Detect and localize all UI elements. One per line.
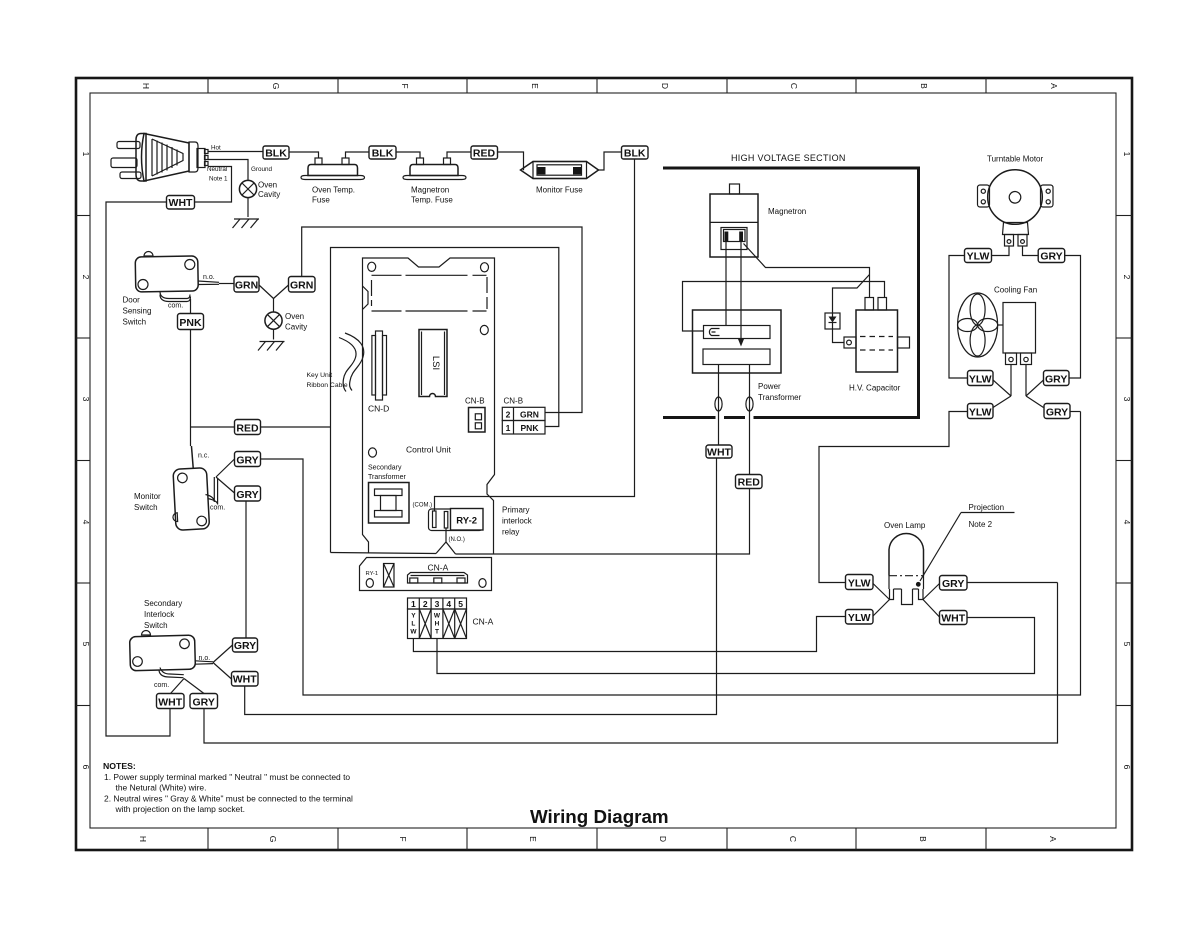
wire tag BLK 1 xyxy=(263,146,289,159)
svg-text:D: D xyxy=(658,836,668,842)
wire tag GRY secondary com xyxy=(190,694,218,709)
wire YLW fan bottom to oven lamp yellow xyxy=(819,412,968,583)
relay RY-2 xyxy=(429,509,484,531)
diode xyxy=(825,313,840,329)
oven temp fuse xyxy=(301,158,365,180)
wire fan pin1 leads xyxy=(993,365,1011,408)
svg-text:NOTES:: NOTES: xyxy=(103,761,136,771)
ground symbol 1 xyxy=(233,219,260,228)
wire tag YLW lamp 2 xyxy=(846,610,874,625)
svg-text:n.o.: n.o. xyxy=(199,655,211,662)
wire N.O. to transformer red xyxy=(456,489,750,555)
svg-text:Interlock: Interlock xyxy=(144,610,175,619)
monitor switch com terminal xyxy=(206,477,218,505)
svg-text:Wiring Diagram: Wiring Diagram xyxy=(530,806,669,827)
wire tag PNK xyxy=(178,314,204,330)
CN-A pin1 YLW vertical xyxy=(410,613,417,636)
wire tag WHT secondary com xyxy=(157,694,185,709)
oven lamp bulb xyxy=(889,534,924,605)
svg-text:1: 1 xyxy=(411,599,416,609)
svg-text:B: B xyxy=(919,83,929,89)
svg-text:W: W xyxy=(434,613,441,620)
border grid numbers right xyxy=(1122,152,1132,770)
relay board strip RY-1 / CN-A xyxy=(360,558,492,591)
ground symbol 2 xyxy=(258,342,285,351)
wire RED to n.c. node xyxy=(191,426,235,428)
wire com Y to WHT and GRY tags xyxy=(171,679,185,694)
wire tag YLW lamp 1 xyxy=(846,575,874,590)
callout Projection Note 2 xyxy=(920,503,1015,581)
secondary interlock com terminal xyxy=(159,668,184,678)
wire oven cavity 2 to ground xyxy=(273,329,275,339)
svg-text:n.o.: n.o. xyxy=(203,274,215,281)
svg-text:Oven Temp.: Oven Temp. xyxy=(312,186,355,195)
border grid numbers left xyxy=(81,152,91,770)
wire oven temp fuse to BLK 2 xyxy=(346,152,370,158)
svg-text:Sensing: Sensing xyxy=(123,307,152,316)
svg-text:YLW: YLW xyxy=(969,374,992,386)
svg-text:Ground: Ground xyxy=(251,166,273,173)
H.V. capacitor xyxy=(844,298,910,373)
high voltage section box xyxy=(663,168,919,418)
wire tag RED transformer xyxy=(736,475,763,489)
svg-text:A: A xyxy=(1049,83,1059,89)
wire com to PNK xyxy=(190,299,192,314)
svg-text:Fuse: Fuse xyxy=(312,196,330,205)
svg-text:5: 5 xyxy=(1122,642,1132,647)
control unit PCB outline xyxy=(363,258,495,554)
connector CN-D xyxy=(372,331,387,400)
wire door switch n.o. to GRN xyxy=(219,283,234,285)
connector table CN-B xyxy=(502,407,545,434)
wire BLK to oven temp fuse xyxy=(289,152,319,158)
svg-text:CN-A: CN-A xyxy=(428,563,449,573)
svg-text:CN-B: CN-B xyxy=(504,397,524,406)
svg-text:WHT: WHT xyxy=(707,447,731,459)
wire GRY turntable to fan gray node xyxy=(1065,256,1081,379)
svg-text:G: G xyxy=(268,836,278,843)
wire tag GRN 2 xyxy=(289,277,316,293)
svg-text:H.V. Capacitor: H.V. Capacitor xyxy=(849,384,901,393)
turntable motor xyxy=(978,170,1054,246)
key unit ribbon cable xyxy=(339,333,364,392)
wire turntable pin2 to GRY xyxy=(1023,246,1039,256)
svg-text:Cavity: Cavity xyxy=(285,323,307,332)
svg-text:B: B xyxy=(918,836,928,842)
wire lamp right pin diagonals xyxy=(923,584,940,618)
svg-text:2. Neutral wires " Gray & Whi: 2. Neutral wires " Gray & White" must be… xyxy=(104,794,353,804)
PCB mounting hole xyxy=(369,448,377,457)
svg-text:PNK: PNK xyxy=(521,423,540,433)
svg-text:Note 2: Note 2 xyxy=(969,520,993,529)
svg-text:4: 4 xyxy=(81,520,91,525)
svg-text:RED: RED xyxy=(738,477,761,489)
svg-text:with projection on the lamp so: with projection on the lamp socket. xyxy=(115,804,245,814)
wire CN-A pin3 to oven lamp white xyxy=(437,618,1035,674)
svg-text:LSI: LSI xyxy=(430,356,441,370)
wire primary lead white xyxy=(718,365,720,446)
svg-text:WHT: WHT xyxy=(233,674,257,686)
wire GRY fan bottom junction xyxy=(1070,411,1081,413)
svg-text:L: L xyxy=(411,621,415,628)
CN-A unused pins X xyxy=(419,609,466,639)
svg-text:CN-D: CN-D xyxy=(368,404,389,414)
border grid letters top xyxy=(141,83,1059,90)
projection dot on lamp socket xyxy=(916,582,921,587)
svg-text:GRY: GRY xyxy=(236,489,258,501)
svg-text:BLK: BLK xyxy=(624,148,646,160)
svg-text:RY-2: RY-2 xyxy=(456,516,477,527)
svg-text:HIGH VOLTAGE SECTION: HIGH VOLTAGE SECTION xyxy=(731,153,846,163)
wire primary lead red xyxy=(749,365,751,475)
svg-text:GRY: GRY xyxy=(234,640,256,652)
wire tag WHT transformer xyxy=(706,445,732,458)
svg-text:Secondary: Secondary xyxy=(144,599,182,608)
svg-text:Ribbon Cable: Ribbon Cable xyxy=(307,382,348,389)
svg-text:Oven: Oven xyxy=(258,181,277,190)
svg-text:E: E xyxy=(528,836,538,842)
svg-text:GRY: GRY xyxy=(1046,407,1068,419)
svg-text:the Netural (White) wire.: the Netural (White) wire. xyxy=(116,783,207,793)
wire tag WHT lamp xyxy=(940,611,968,625)
svg-text:Switch: Switch xyxy=(134,503,158,512)
wire tag BLK 4 xyxy=(622,146,649,159)
svg-text:2: 2 xyxy=(423,599,428,609)
wire GRY lamp to gray rail xyxy=(967,582,1058,584)
wire RY-2 N.O. to bump junction xyxy=(445,528,447,542)
svg-text:1: 1 xyxy=(506,423,511,433)
secondary transformer xyxy=(369,483,410,524)
wire GRN 2 riser to control unit loop xyxy=(302,227,582,413)
wire WHT n.o. to transformer white xyxy=(245,458,717,715)
svg-text:Transformer: Transformer xyxy=(368,474,407,481)
CN-A pin3 WHT vertical xyxy=(434,613,441,636)
svg-text:D: D xyxy=(660,83,670,89)
wire PNK loop to CN-B xyxy=(331,248,559,553)
svg-text:1: 1 xyxy=(1122,152,1132,157)
wire RED to PNK loop xyxy=(261,426,331,428)
svg-text:com.: com. xyxy=(168,303,183,310)
svg-text:3: 3 xyxy=(1122,397,1132,402)
svg-text:C: C xyxy=(789,83,799,89)
svg-text:Temp. Fuse: Temp. Fuse xyxy=(411,196,453,205)
connector CN-B on board xyxy=(469,408,486,433)
strip mounting hole xyxy=(479,579,486,588)
svg-text:4: 4 xyxy=(1122,520,1132,525)
relay RY-1 symbol xyxy=(384,564,395,588)
svg-text:A: A xyxy=(1048,836,1058,842)
svg-text:WHT: WHT xyxy=(941,613,965,625)
oven cavity symbol 2 xyxy=(265,312,282,329)
connector CN-A on strip xyxy=(408,573,468,584)
svg-text:G: G xyxy=(271,83,281,90)
svg-text:BLK: BLK xyxy=(372,148,394,160)
svg-text:E: E xyxy=(530,83,540,89)
svg-text:RY-1: RY-1 xyxy=(366,571,379,577)
wire turntable pin1 to YLW xyxy=(992,246,1010,256)
secondary interlock switch xyxy=(130,631,213,671)
svg-text:CN-A: CN-A xyxy=(473,617,494,627)
svg-text:T: T xyxy=(435,629,439,636)
svg-text:H: H xyxy=(435,621,440,628)
svg-text:3: 3 xyxy=(435,599,440,609)
IC LSI xyxy=(419,330,447,397)
svg-text:Y: Y xyxy=(411,613,416,620)
svg-text:com.: com. xyxy=(210,505,225,512)
wire magnetron to capacitor pin xyxy=(744,244,870,298)
PCB mounting hole xyxy=(480,325,488,334)
wire tag YLW fan mid xyxy=(968,371,994,386)
connector table CN-A xyxy=(408,598,467,639)
svg-text:Turntable Motor: Turntable Motor xyxy=(987,155,1044,164)
svg-text:Cooling Fan: Cooling Fan xyxy=(994,286,1037,295)
wire tag BLK 2 xyxy=(369,146,396,159)
svg-text:1: 1 xyxy=(81,152,91,157)
svg-text:Magnetron: Magnetron xyxy=(411,186,449,195)
monitor switch n.c. post xyxy=(191,446,194,469)
wire neutral plug to WHT tag xyxy=(195,167,232,203)
wire tag GRY monitor 2 xyxy=(235,486,261,501)
wire tag RED xyxy=(471,146,498,159)
svg-text:GRY: GRY xyxy=(1040,251,1062,263)
svg-text:2: 2 xyxy=(506,410,511,420)
wire diode anode to capacitor node xyxy=(833,275,870,314)
svg-text:F: F xyxy=(398,836,408,841)
svg-text:Note 1: Note 1 xyxy=(209,176,228,183)
wire com Y to GRY tags xyxy=(216,459,235,477)
wire diode cathode to capacitor tab xyxy=(833,329,845,343)
grommet oval xyxy=(715,397,722,411)
svg-text:BLK: BLK xyxy=(265,148,287,160)
wire GRY1 rail to cooling fan gray xyxy=(261,412,1081,696)
svg-text:Monitor: Monitor xyxy=(134,492,161,501)
svg-text:com.: com. xyxy=(154,682,169,689)
svg-text:Hot: Hot xyxy=(211,145,221,152)
svg-text:F: F xyxy=(400,83,410,88)
svg-text:relay: relay xyxy=(502,528,519,537)
oven cavity symbol 1 xyxy=(239,180,256,197)
svg-text:YLW: YLW xyxy=(848,612,871,624)
svg-text:H: H xyxy=(138,836,148,842)
svg-text:Oven: Oven xyxy=(285,312,304,321)
wire tag WHT neutral xyxy=(167,196,195,210)
wire lamp left pin diagonals xyxy=(873,584,890,617)
wire hot plug to BLK xyxy=(208,151,263,153)
magnetron temp fuse xyxy=(403,158,466,180)
PCB mounting hole xyxy=(368,262,376,271)
wire tag GRY fan mid xyxy=(1044,371,1070,386)
border tick marks xyxy=(76,78,1132,850)
svg-text:YLW: YLW xyxy=(969,407,992,419)
svg-text:3: 3 xyxy=(81,397,91,402)
wire magnetron filament right arrow to transformer xyxy=(738,242,744,347)
door switch com terminal xyxy=(160,292,190,299)
svg-text:Control Unit: Control Unit xyxy=(406,445,452,455)
wire CN-A pin1 to oven lamp yellow xyxy=(413,617,845,652)
monitor fuse xyxy=(521,162,599,179)
svg-text:2: 2 xyxy=(1122,275,1132,280)
wire monitor fuse to BLK 4 xyxy=(599,152,622,170)
wire transformer HV winding to capacitor xyxy=(683,282,885,332)
pin numbers CN-A xyxy=(411,599,463,609)
svg-text:Monitor Fuse: Monitor Fuse xyxy=(536,186,583,195)
svg-text:GRY: GRY xyxy=(193,696,215,708)
wire tag GRY turntable xyxy=(1038,249,1065,263)
svg-text:6: 6 xyxy=(1122,765,1132,770)
wire BLK down to RY-2 COM xyxy=(435,159,635,511)
svg-text:Primary: Primary xyxy=(502,506,530,515)
border grid letters bottom xyxy=(138,836,1058,843)
svg-text:Projection: Projection xyxy=(969,503,1005,512)
wire n.o. Y to GRY and WHT tags xyxy=(213,645,233,663)
svg-text:4: 4 xyxy=(446,599,451,609)
svg-text:(N.O.): (N.O.) xyxy=(449,537,465,543)
wire GRY com rail to oven lamp gray xyxy=(204,583,1058,744)
svg-text:WHT: WHT xyxy=(158,696,182,708)
svg-text:interlock: interlock xyxy=(502,517,533,526)
wire tag RED monitor xyxy=(235,420,261,435)
wire tag YLW turntable xyxy=(965,249,992,263)
wire oven cavity to ground xyxy=(247,198,249,217)
wire fan pin2 leads xyxy=(1026,365,1044,408)
wire RED to monitor fuse xyxy=(498,152,524,170)
svg-text:Transformer: Transformer xyxy=(758,393,802,402)
wire tag GRY monitor 1 xyxy=(235,452,261,467)
svg-text:Key Unit: Key Unit xyxy=(307,372,333,379)
wire tag WHT secondary n.o. xyxy=(232,672,259,687)
notes text xyxy=(103,761,353,814)
PCB mounting hole xyxy=(481,263,489,272)
cooling fan xyxy=(958,293,1036,365)
svg-text:GRN: GRN xyxy=(520,410,539,420)
svg-text:5: 5 xyxy=(458,599,463,609)
wire BLK to magnetron temp fuse xyxy=(396,152,420,158)
svg-text:n.c.: n.c. xyxy=(198,453,209,460)
svg-text:CN-B: CN-B xyxy=(465,397,485,406)
svg-text:W: W xyxy=(410,629,417,636)
svg-text:1. Power supply terminal mark: 1. Power supply terminal marked " Neutra… xyxy=(104,772,350,782)
svg-text:Power: Power xyxy=(758,382,781,391)
svg-text:6: 6 xyxy=(81,765,91,770)
svg-text:GRY: GRY xyxy=(942,578,964,590)
wire neutral rail left xyxy=(106,202,170,736)
svg-text:Door: Door xyxy=(123,296,141,305)
wire bump junction xyxy=(436,542,456,554)
display window dashed xyxy=(372,275,488,311)
wire GRN junction Y xyxy=(259,285,289,312)
svg-text:5: 5 xyxy=(81,642,91,647)
svg-text:H: H xyxy=(141,83,151,89)
border inner frame xyxy=(90,93,1116,828)
wire PNK down to monitor n.c. node xyxy=(190,330,192,447)
svg-text:Switch: Switch xyxy=(144,621,168,630)
door sensing switch xyxy=(135,252,219,293)
svg-text:YLW: YLW xyxy=(848,578,871,590)
power transformer xyxy=(693,310,782,373)
svg-text:GRY: GRY xyxy=(1045,374,1067,386)
wire rail to bump junction xyxy=(331,553,437,554)
wire tag GRY fan bottom xyxy=(1044,404,1070,419)
wire tag GRN 1 xyxy=(234,277,259,293)
wire ground plug to oven cavity xyxy=(208,160,248,181)
wire WHT transformer down xyxy=(716,457,718,459)
wire YLW turntable to fan yellow node xyxy=(949,256,968,379)
svg-text:GRN: GRN xyxy=(235,280,258,292)
wire magnetron temp fuse to RED xyxy=(447,152,471,158)
wire tag GRY secondary n.o. xyxy=(233,638,258,652)
svg-text:2: 2 xyxy=(81,275,91,280)
svg-text:Cavity: Cavity xyxy=(258,190,280,199)
border outer frame xyxy=(76,78,1132,850)
svg-text:Secondary: Secondary xyxy=(368,465,402,472)
svg-text:Oven Lamp: Oven Lamp xyxy=(884,521,926,530)
power plug xyxy=(111,134,208,182)
svg-text:Switch: Switch xyxy=(123,318,147,327)
wire GRY2 down to secondary interlock xyxy=(245,501,247,638)
magnetron xyxy=(710,184,758,257)
svg-text:YLW: YLW xyxy=(967,251,990,263)
wire magnetron filament left to transformer xyxy=(725,242,727,326)
strip mounting hole xyxy=(366,579,373,588)
svg-text:RED: RED xyxy=(473,148,496,160)
wire tag YLW fan bottom xyxy=(968,404,994,419)
svg-text:PNK: PNK xyxy=(179,317,202,329)
grommet oval xyxy=(746,397,753,411)
svg-text:Magnetron: Magnetron xyxy=(768,207,806,216)
monitor switch xyxy=(170,468,209,531)
svg-text:GRY: GRY xyxy=(236,455,258,467)
svg-text:WHT: WHT xyxy=(169,197,193,209)
svg-text:C: C xyxy=(788,836,798,842)
svg-text:(COM.): (COM.) xyxy=(413,503,433,509)
wire tag GRY lamp xyxy=(940,576,968,591)
svg-text:RED: RED xyxy=(236,423,259,435)
svg-text:GRN: GRN xyxy=(290,280,313,292)
